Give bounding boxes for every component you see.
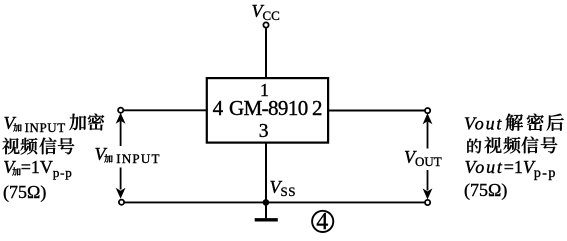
pin 2 label [312,98,323,119]
output voltage arrow up [423,113,433,148]
pin 4 label [213,98,224,119]
output voltage arrow down [423,170,433,200]
ground [255,202,278,219]
figure number 4 digit [316,210,328,234]
pin 3 label [259,122,269,142]
bottom return wire [124,201,425,203]
left note line 4: (75 ohm) [3,183,46,201]
input voltage arrow up [116,113,126,146]
IC U1 GM-8910 body [207,78,328,143]
right note line 4: (75 ohm) [464,181,507,199]
output terminal bottom [425,200,430,205]
input terminal bottom [119,200,124,205]
right note line 3: Vout=1Vp-p [465,158,557,177]
wire input terminal to pin 4 [124,109,207,111]
node Vss junction [263,199,270,206]
wire pin 2 to output terminal [329,110,425,112]
left note line 3: V加=1Vp-p [3,158,72,176]
figure number 4 circle [312,211,333,232]
pin 1 label [260,81,269,99]
power label Vcc [252,2,280,20]
input voltage arrow down [116,168,126,199]
IC U1 part number GM-8910 [229,98,308,119]
label Vss [270,178,296,196]
left note line 2: 视频信号 [2,137,76,157]
Vcc terminal [263,22,268,27]
label Vout (output voltage) [404,148,442,166]
wire Vcc terminal to pin 1 [265,28,267,78]
output terminal top [425,108,430,113]
left note line 1: V加INPUT 加密 [4,113,105,132]
input terminal top [118,108,123,113]
right note line 2: 的视频信号 [466,136,558,156]
right note line 1: Vout 解密后 [464,113,565,133]
label V加 INPUT (input voltage) [95,145,161,163]
wire pin 3 to Vss node [265,142,267,202]
